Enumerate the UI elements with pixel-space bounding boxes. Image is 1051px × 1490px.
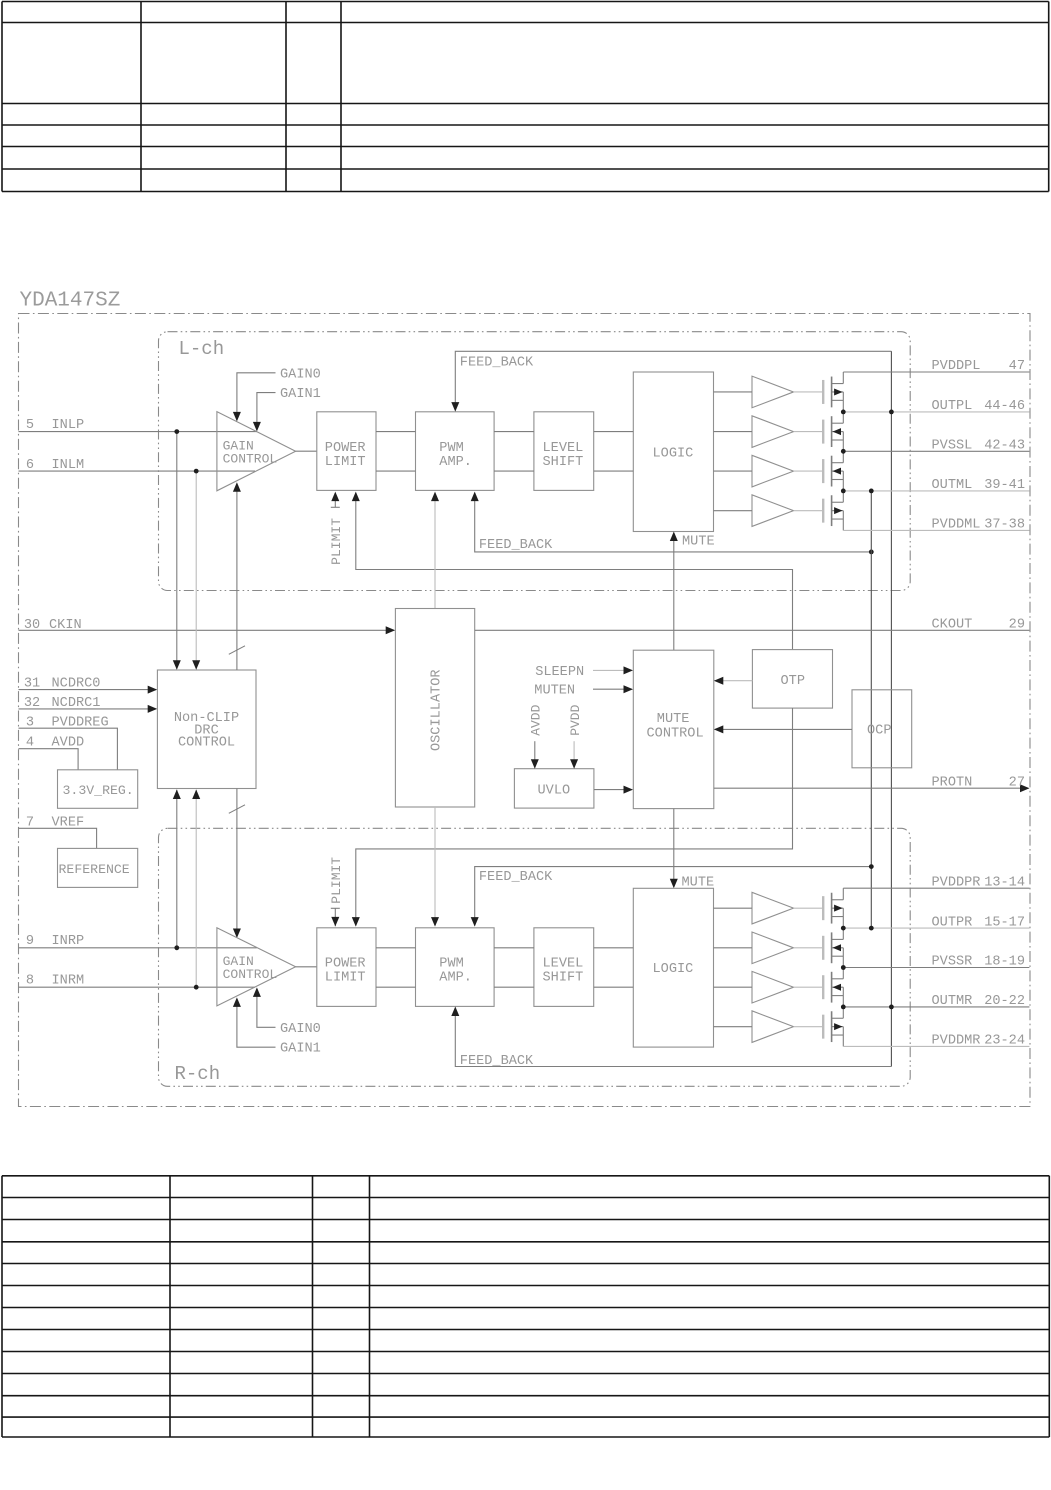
wire pwm amp to level shift M (R) bbox=[494, 986, 534, 988]
svg-text:SHIFT: SHIFT bbox=[543, 970, 584, 985]
svg-text:LIMIT: LIMIT bbox=[325, 455, 366, 470]
block 3.3V regulator U-reg bbox=[58, 770, 138, 809]
svg-text:GAIN1: GAIN1 bbox=[280, 387, 321, 402]
bottom table grid bbox=[2, 1176, 1049, 1437]
wire level shift to logic P (R) bbox=[594, 947, 634, 949]
svg-text:MUTEN: MUTEN bbox=[534, 684, 575, 699]
svg-text:FEED_BACK: FEED_BACK bbox=[460, 1054, 534, 1069]
transistor MR2 (R-ch bridge FET 2) bbox=[714, 932, 844, 963]
junction feedback / sense (R) bbox=[869, 864, 874, 869]
wire oscillator to pwm amp (L) bbox=[434, 493, 436, 609]
L-ch block boundary (dash-dot) bbox=[159, 332, 911, 591]
svg-text:AVDD: AVDD bbox=[529, 704, 544, 735]
arrowhead gain bus into L gain control bbox=[233, 482, 241, 492]
wire/pin PVSSR 18-19 bbox=[843, 967, 1029, 969]
arrowhead into DRC bottom (INRM) bbox=[192, 790, 200, 800]
svg-text:AMP.: AMP. bbox=[439, 970, 472, 985]
transistor MR1 (R-ch bridge FET 1) bbox=[714, 893, 844, 924]
R-ch block boundary (dash-dot) bbox=[159, 828, 911, 1086]
outer chip boundary (dash-dot) bbox=[19, 314, 1031, 1107]
arrowhead feedback into pwm amp bottom (L) bbox=[471, 492, 479, 502]
svg-text:29: 29 bbox=[1009, 618, 1025, 633]
wire power limit to pwm amp P (R) bbox=[376, 947, 416, 949]
buffer amp R1 bbox=[752, 892, 794, 924]
svg-text:PVDDPL: PVDDPL bbox=[932, 359, 981, 374]
svg-text:SLEEPN: SLEEPN bbox=[535, 665, 584, 680]
svg-text:CONTROL: CONTROL bbox=[223, 452, 278, 467]
junction OUTMR / sense B bbox=[889, 1005, 894, 1010]
wire L MOSFET drain/source column bbox=[842, 372, 844, 530]
svg-text:47: 47 bbox=[1009, 359, 1025, 374]
wire/pin PVDDML 37-38 bbox=[843, 529, 1029, 531]
wire OUTPL sense vertical (to OCP) bbox=[890, 351, 892, 1007]
wire PVDDREG to 3.3V regulator bbox=[19, 728, 118, 770]
svg-text:5: 5 bbox=[26, 418, 34, 433]
buffer amp R3 bbox=[752, 971, 794, 1003]
buffer amp L1 bbox=[752, 376, 794, 408]
arrowhead MUTE into logic (L) bbox=[670, 532, 678, 542]
junction INLP bbox=[174, 429, 179, 434]
wire/pin OUTMR 20-22 bbox=[843, 1006, 1029, 1008]
lead GAIN1 (R) bbox=[237, 999, 276, 1047]
svg-text:PWM: PWM bbox=[439, 956, 463, 971]
transistor ML4 (L-ch bridge FET 4) bbox=[714, 495, 844, 526]
arrowhead CKIN into oscillator bbox=[386, 626, 396, 634]
svg-text:9: 9 bbox=[26, 934, 34, 949]
amp L gain control triangle bbox=[217, 412, 296, 491]
svg-text:PVDDML: PVDDML bbox=[932, 518, 981, 533]
wire PROTN to border bbox=[714, 787, 1029, 789]
junction OUTMR at FET column bbox=[841, 1005, 846, 1010]
svg-text:PVSSR: PVSSR bbox=[932, 955, 973, 970]
wire INLM sense down to DRC control bbox=[195, 471, 197, 669]
svg-text:GAIN0: GAIN0 bbox=[280, 367, 321, 382]
wire mute control to logic (R) bbox=[673, 809, 675, 887]
wire NCDRC1 to DRC control bbox=[19, 708, 157, 710]
PLIMIT lead tick (R) bbox=[331, 907, 340, 909]
wire NCDRC0 to DRC control bbox=[19, 689, 157, 691]
svg-text:LEVEL: LEVEL bbox=[543, 956, 584, 971]
wire/pin PVDDMR 23-24 bbox=[843, 1045, 1029, 1047]
wire VREF to reference bbox=[19, 828, 97, 848]
wire INRP from border to gain control bbox=[19, 947, 257, 949]
wire FEED_BACK bottom (L) bbox=[475, 493, 872, 552]
svg-text:39-41: 39-41 bbox=[984, 478, 1025, 493]
svg-text:FEED_BACK: FEED_BACK bbox=[479, 870, 553, 885]
wire/pin PVDDPR 13-14 bbox=[843, 887, 1029, 889]
junction OUTPR / sense A end bbox=[869, 926, 874, 931]
arrowhead MUTE into logic (R) bbox=[670, 879, 678, 889]
block LEVEL SHIFT (L) bbox=[534, 412, 594, 491]
block MUTE CONTROL bbox=[633, 650, 714, 808]
wire AVDD to UVLO bbox=[534, 741, 536, 767]
svg-text:44-46: 44-46 bbox=[984, 399, 1025, 414]
junction PVSSR at FET column bbox=[841, 965, 846, 970]
arrowhead into DRC top (INLM) bbox=[192, 660, 200, 670]
svg-text:LOGIC: LOGIC bbox=[653, 446, 694, 461]
wire INLP sense down to DRC control bbox=[176, 432, 178, 669]
arrowhead PVDD into UVLO bbox=[570, 759, 578, 769]
arrowhead SLEEPN bbox=[624, 666, 634, 674]
transistor ML1 (L-ch bridge FET 1) bbox=[714, 377, 844, 408]
svg-text:PVDDPR: PVDDPR bbox=[932, 875, 981, 890]
arrowhead UVLO into mute control bbox=[624, 786, 634, 794]
svg-text:CONTROL: CONTROL bbox=[178, 736, 235, 751]
block POWER LIMIT (L) bbox=[317, 412, 376, 491]
svg-text:OUTMR: OUTMR bbox=[932, 994, 973, 1009]
wire OTP to power limit (R) bbox=[356, 708, 793, 925]
transistor MR3 (R-ch bridge FET 3) bbox=[714, 972, 844, 1003]
svg-text:SHIFT: SHIFT bbox=[543, 455, 584, 470]
transistor ML2 (L-ch bridge FET 2) bbox=[714, 416, 844, 447]
junction INRM bbox=[194, 985, 199, 990]
svg-text:3.3V_REG.: 3.3V_REG. bbox=[63, 783, 134, 798]
svg-text:27: 27 bbox=[1009, 775, 1025, 790]
block reference bbox=[58, 848, 138, 887]
arrowhead OCP into mute control bbox=[714, 725, 724, 733]
block POWER LIMIT (R) bbox=[317, 928, 376, 1007]
amp R gain control triangle bbox=[217, 928, 296, 1006]
wire CKIN to oscillator bbox=[19, 629, 395, 631]
PLIMIT lead line (R) bbox=[334, 908, 336, 926]
arrowhead into DRC bottom (INRP) bbox=[173, 790, 181, 800]
wire level shift to logic M (R) bbox=[594, 986, 634, 988]
svg-text:REFERENCE: REFERENCE bbox=[59, 862, 130, 877]
wire pwm amp to level shift P (R) bbox=[494, 947, 534, 949]
svg-text:OTP: OTP bbox=[781, 674, 805, 689]
top table grid bbox=[2, 2, 1049, 192]
block Non-CLIP DRC CONTROL bbox=[157, 670, 256, 789]
svg-text:FEED_BACK: FEED_BACK bbox=[460, 356, 534, 371]
block OSCILLATOR bbox=[395, 609, 474, 808]
junction OUTPL / sense B bbox=[889, 410, 894, 415]
wire AVDD to 3.3V regulator bbox=[19, 749, 79, 770]
svg-text:18-19: 18-19 bbox=[984, 955, 1025, 970]
wire level shift to logic P (L) bbox=[594, 431, 634, 433]
wire pwm amp to level shift P (L) bbox=[494, 431, 534, 433]
svg-text:FEED_BACK: FEED_BACK bbox=[479, 538, 553, 553]
wire OUTML sense vertical (to OCP) bbox=[870, 491, 872, 928]
wire INRM sense up to DRC control bbox=[195, 790, 197, 988]
svg-text:INLP: INLP bbox=[52, 418, 85, 433]
block PWM AMP (L) bbox=[416, 412, 495, 491]
PLIMIT lead tick (L) bbox=[331, 506, 340, 508]
block OTP bbox=[752, 650, 832, 709]
buffer amp L3 bbox=[752, 455, 794, 487]
junction feedback / OUTML sense (L) bbox=[869, 550, 874, 555]
wire mute control to logic (L) bbox=[673, 533, 675, 650]
wire INLM from border to gain control bbox=[19, 470, 256, 472]
junction OUTPL at FET column bbox=[841, 410, 846, 415]
block LEVEL SHIFT (R) bbox=[534, 928, 594, 1007]
gain bus DRC control to R triangle bbox=[236, 789, 238, 937]
svg-text:CONTROL: CONTROL bbox=[647, 727, 704, 742]
svg-text:PVDDMR: PVDDMR bbox=[932, 1034, 981, 1049]
wire OTP to mute control bbox=[715, 680, 752, 682]
wire oscillator to pwm amp (R) bbox=[434, 807, 436, 926]
block UVLO bbox=[514, 769, 594, 808]
arrowhead oscillator into pwm amp (R) bbox=[431, 917, 439, 927]
block PWM AMP (R) bbox=[416, 928, 495, 1007]
arrowhead OTP into mute control bbox=[714, 677, 724, 685]
svg-text:POWER: POWER bbox=[325, 441, 366, 456]
wire/pin OUTML 39-41 bbox=[843, 490, 1029, 492]
bus slash lower bbox=[229, 805, 245, 814]
gain bus L triangle to DRC control bbox=[236, 484, 238, 670]
wire gain control out to power limit (L) bbox=[296, 450, 317, 452]
svg-text:PVDD: PVDD bbox=[568, 704, 583, 735]
svg-text:UVLO: UVLO bbox=[538, 784, 571, 799]
svg-text:MUTE: MUTE bbox=[682, 535, 715, 550]
junction INRP bbox=[174, 945, 179, 950]
arrowhead oscillator into pwm amp (L) bbox=[431, 492, 439, 502]
block LOGIC (R) bbox=[633, 888, 713, 1047]
wire/pin PVDDPL 47 bbox=[843, 371, 1029, 373]
arrowhead feedback into PWM top (L) bbox=[451, 402, 459, 412]
svg-text:PVSSL: PVSSL bbox=[932, 439, 973, 454]
buffer amp R4 bbox=[752, 1011, 794, 1043]
svg-text:AMP.: AMP. bbox=[439, 455, 472, 470]
svg-text:GAIN0: GAIN0 bbox=[280, 1022, 321, 1037]
arrowhead GAIN1 into triangle (R) bbox=[233, 997, 241, 1007]
svg-text:PWM: PWM bbox=[439, 441, 463, 456]
block LOGIC (L) bbox=[633, 372, 713, 532]
svg-text:OSCILLATOR: OSCILLATOR bbox=[429, 669, 444, 751]
transistor ML3 (L-ch bridge FET 3) bbox=[714, 456, 844, 487]
wire FEED_BACK top (R) bbox=[475, 867, 872, 926]
lead GAIN1 (L) bbox=[257, 393, 276, 430]
arrowhead NCDRC1 bbox=[148, 705, 158, 713]
buffer amp L2 bbox=[752, 416, 794, 448]
wire OCP to mute control bbox=[715, 728, 852, 730]
svg-text:PLIMIT: PLIMIT bbox=[329, 857, 344, 904]
svg-text:MUTE: MUTE bbox=[657, 712, 690, 727]
svg-text:OUTPL: OUTPL bbox=[932, 399, 973, 414]
arrowhead GAIN1 into triangle (L) bbox=[253, 422, 261, 432]
arrowhead feedback into pwm amp bottom (R) bbox=[451, 1007, 459, 1017]
junction OUTML at FET column bbox=[841, 489, 846, 494]
svg-text:YDA147SZ: YDA147SZ bbox=[20, 290, 121, 313]
svg-text:OUTML: OUTML bbox=[932, 478, 973, 493]
wire/pin PVSSL 42-43 bbox=[843, 450, 1029, 452]
buffer amp L4 bbox=[752, 495, 794, 527]
wire INLP from border to gain control bbox=[19, 431, 257, 433]
lead GAIN0 (R) bbox=[257, 989, 276, 1027]
arrowhead AVDD into UVLO bbox=[531, 759, 539, 769]
wire INRP sense up to DRC control bbox=[176, 790, 178, 948]
arrowhead MUTEN bbox=[624, 685, 634, 693]
wire power limit to OTP (L) bbox=[356, 493, 793, 650]
svg-text:20-22: 20-22 bbox=[984, 994, 1025, 1009]
svg-text:42-43: 42-43 bbox=[984, 439, 1025, 454]
svg-text:GAIN1: GAIN1 bbox=[280, 1042, 321, 1057]
arrowhead NCDRC0 bbox=[148, 686, 158, 694]
wire power limit to pwm amp P (L) bbox=[376, 431, 416, 433]
arrowhead GAIN0 into triangle (L) bbox=[233, 412, 241, 422]
svg-text:INRM: INRM bbox=[52, 974, 85, 989]
arrowhead gain bus into R gain control bbox=[233, 929, 241, 939]
arrowhead OTP line into power limit (L) bbox=[352, 492, 360, 502]
svg-text:23-24: 23-24 bbox=[984, 1034, 1025, 1049]
arrowhead into DRC top (INLP) bbox=[173, 660, 181, 670]
svg-text:37-38: 37-38 bbox=[984, 518, 1025, 533]
transistor MR4 (R-ch bridge FET 4) bbox=[714, 1011, 844, 1042]
svg-text:13-14: 13-14 bbox=[984, 875, 1025, 890]
svg-text:LEVEL: LEVEL bbox=[543, 441, 584, 456]
arrowhead GAIN0 into triangle (R) bbox=[253, 987, 261, 997]
wire power limit to pwm amp M (L) bbox=[376, 470, 416, 472]
lead GAIN0 (L) bbox=[237, 373, 276, 420]
wire SLEEPN to mute control bbox=[593, 669, 632, 671]
svg-text:15-17: 15-17 bbox=[984, 915, 1025, 930]
wire FEED_BACK top (L) bbox=[455, 351, 891, 410]
arrowhead PLIMIT into power limit (R) bbox=[331, 917, 339, 927]
svg-text:INRP: INRP bbox=[52, 934, 85, 949]
wire OUTMR sense vertical lower bbox=[890, 1007, 892, 1067]
wire gain control out to power limit (R) bbox=[296, 966, 317, 968]
bus slash upper bbox=[229, 646, 245, 655]
svg-text:OCP: OCP bbox=[867, 724, 891, 739]
svg-text:PROTN: PROTN bbox=[932, 775, 973, 790]
buffer amp R2 bbox=[752, 932, 794, 964]
svg-text:LOGIC: LOGIC bbox=[653, 962, 694, 977]
wire pwm amp to level shift M (L) bbox=[494, 470, 534, 472]
wire CKOUT to border bbox=[475, 629, 1030, 631]
wire MUTEN to mute control bbox=[593, 688, 632, 690]
wire/pin OUTPL 44-46 bbox=[843, 411, 1029, 413]
wire UVLO to mute control bbox=[594, 789, 632, 791]
svg-text:PLIMIT: PLIMIT bbox=[329, 518, 344, 565]
wire level shift to logic M (L) bbox=[594, 470, 634, 472]
arrowhead OTP line into power limit (R) bbox=[352, 917, 360, 927]
junction INLM bbox=[194, 469, 199, 474]
wire R MOSFET drain/source column bbox=[842, 888, 844, 1046]
svg-text:L-ch: L-ch bbox=[179, 338, 225, 360]
svg-text:OUTPR: OUTPR bbox=[932, 915, 973, 930]
svg-text:CONTROL: CONTROL bbox=[223, 967, 278, 982]
wire PVDD to UVLO bbox=[573, 741, 575, 767]
svg-text:R-ch: R-ch bbox=[175, 1063, 221, 1085]
arrowhead PLIMIT into power limit (L) bbox=[331, 492, 339, 502]
svg-text:LIMIT: LIMIT bbox=[325, 970, 366, 985]
wire/pin OUTPR 15-17 bbox=[843, 927, 1029, 929]
arrowhead feedback into pwm amp top (R) bbox=[471, 917, 479, 927]
wire power limit to pwm amp M (R) bbox=[376, 986, 416, 988]
svg-text:POWER: POWER bbox=[325, 956, 366, 971]
junction PVSSL at FET column bbox=[841, 449, 846, 454]
svg-text:CKOUT: CKOUT bbox=[932, 618, 973, 633]
wire INRM from border to gain control bbox=[19, 986, 256, 988]
block OCP bbox=[852, 690, 912, 768]
PLIMIT lead line (L) bbox=[334, 493, 336, 507]
junction OUTML / sense A bbox=[869, 489, 874, 494]
svg-text:8: 8 bbox=[26, 974, 34, 989]
arrowhead PROTN out bbox=[1020, 784, 1030, 792]
wire FEED_BACK bottom (R) bbox=[455, 1008, 891, 1067]
junction OUTPR at FET column bbox=[841, 926, 846, 931]
